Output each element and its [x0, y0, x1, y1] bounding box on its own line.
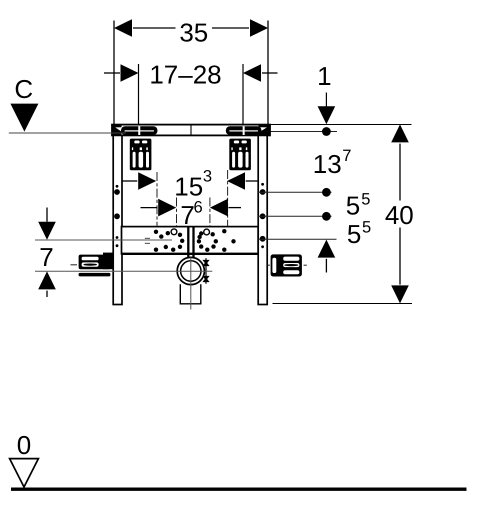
- svg-text:17–28: 17–28: [149, 60, 221, 90]
- svg-text:15: 15: [174, 171, 203, 201]
- svg-text:5: 5: [346, 190, 360, 220]
- svg-text:7: 7: [39, 242, 53, 272]
- svg-text:40: 40: [385, 200, 414, 230]
- svg-text:5: 5: [361, 191, 370, 209]
- svg-text:5: 5: [362, 218, 371, 236]
- svg-text:3: 3: [203, 167, 212, 185]
- svg-text:0: 0: [17, 430, 31, 460]
- svg-text:C: C: [14, 74, 33, 104]
- svg-text:13: 13: [313, 149, 342, 179]
- svg-text:6: 6: [194, 199, 203, 217]
- svg-text:1: 1: [317, 61, 331, 91]
- svg-text:7: 7: [342, 147, 351, 165]
- svg-text:35: 35: [179, 18, 208, 48]
- svg-text:5: 5: [347, 219, 361, 249]
